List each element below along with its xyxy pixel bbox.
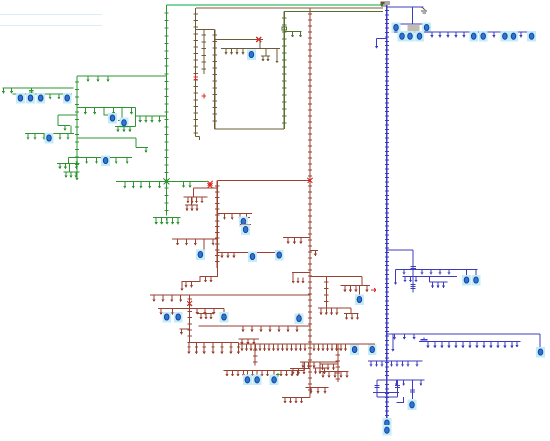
wire: green trunk bottom bus y=217.6 xyxy=(153,217,180,219)
load arrows on y=308.2 xyxy=(321,308,337,312)
wire: top-left lateral y=88 xyxy=(3,87,74,89)
wire: green tie line y=181.5 west part xyxy=(116,181,207,183)
transformer bank dot B4 xyxy=(469,31,478,42)
transformer T19 (blue dot) xyxy=(536,347,545,358)
junction switch at trunk tie crossing xyxy=(164,179,170,185)
cross bars on riser lower xyxy=(411,285,416,289)
wire: dot stems on y=370.7 xyxy=(247,371,274,376)
wire: dot stems cluster1 xyxy=(467,270,477,277)
voltage regulator box VR1 xyxy=(408,26,420,30)
wire: southwest branch y=163.3 xyxy=(57,157,79,163)
load arrows under bus y=76 xyxy=(88,76,108,80)
wire: cluster2 sub-bus y=341.7 xyxy=(419,341,520,343)
wire: H-structure top bus y=380.1 xyxy=(377,379,425,381)
wire: lateral y=360.9 xyxy=(368,360,423,362)
load ticks on feeder bus xyxy=(432,32,521,35)
capacitor C9 (blue dot) on trunk xyxy=(383,418,392,429)
wire: east bus y=308.4 xyxy=(190,307,224,309)
transformer T20 (blue dot) xyxy=(408,400,417,411)
load arrows on lateral y=107.6 xyxy=(85,108,131,113)
load ticks on bus y=269.5 xyxy=(404,270,449,273)
load arrows on y=380.1 xyxy=(396,380,421,383)
recloser bars on riser x=413.2 xyxy=(411,267,416,269)
wire: drop for T16 xyxy=(298,314,300,316)
recloser bars right leg xyxy=(395,385,400,387)
wire: sub-feeder y=39.5 xyxy=(215,39,263,41)
load arrows on y=370.7 xyxy=(227,371,298,374)
wire: bus y=285.7 xyxy=(341,285,371,287)
wire: stub y=56 xyxy=(261,49,270,57)
load arrows on y=360.9 xyxy=(371,361,417,364)
capacitor C5 (blue dot) xyxy=(350,344,359,355)
wire: olive feeder head line y=11.5 xyxy=(284,11,383,13)
wire: lateral y=213.3 east xyxy=(217,212,252,214)
load arrows on branch y=31.6 xyxy=(293,32,301,35)
load arrows on y=213.3 xyxy=(225,213,240,217)
wire: sub-bus y=48.5 xyxy=(221,48,280,50)
load arrows on lateral y=94 xyxy=(50,94,59,97)
load arrow staircase end xyxy=(181,286,183,289)
load arrows on comb y=126.5 xyxy=(118,127,130,130)
capacitor bank C3 (blue dot) xyxy=(36,93,45,104)
load arrows y=205 xyxy=(187,205,197,209)
wire: drop x=361.8 xyxy=(361,276,363,285)
wire: blue feeder head y=7 xyxy=(387,6,424,8)
wire: drop x=392.9 xyxy=(392,334,394,347)
load arrows y=371.7 xyxy=(323,372,347,376)
load arrows on y=285.7 xyxy=(345,286,367,290)
wire: H bottom bar y=396.8 xyxy=(377,396,398,398)
transformer T17 (blue dot) xyxy=(462,275,471,286)
load arrows on sub-bus y=341.7 xyxy=(428,342,512,346)
pole ticks on x=284.2 xyxy=(282,18,286,123)
pole ticks on x=203.8 xyxy=(202,35,206,69)
wire: lateral y=326 from riser to trunk xyxy=(199,325,311,327)
wire: west bus y=308.4 xyxy=(158,307,190,309)
load arrow on y=125.5 stub xyxy=(64,126,66,129)
faint artifact line 1 xyxy=(0,14,102,16)
wire: loop vertical x=195.6 xyxy=(195,8,197,137)
transformer bank dot B3 xyxy=(415,31,424,42)
wire: riser x=413.2 lower xyxy=(412,270,414,293)
load arrows y=277.5 xyxy=(293,278,303,281)
transformer T22 (blue dot) xyxy=(253,375,262,386)
load arrows on y=252.3 xyxy=(222,252,234,255)
recloser bars left leg xyxy=(374,385,379,387)
wire: east corner riser x=304.7 xyxy=(305,362,310,371)
wire: riser x=136 with hook xyxy=(136,138,148,148)
pole ticks x=337.8 xyxy=(336,349,340,379)
transformer T14 (blue dot) xyxy=(174,312,183,323)
wire: riser x=189.6 xyxy=(189,295,191,343)
transformer T6 (blue dot) xyxy=(247,49,256,60)
wire: west lateral y=133.7 xyxy=(25,126,74,134)
transformer T8 (blue dot) xyxy=(241,224,250,235)
pole ticks on x=217.3 xyxy=(215,186,219,261)
wire: red subtrunk x=217.3 xyxy=(216,181,218,269)
wire: sub-bus y=313.5 mid xyxy=(197,313,214,315)
load arrows on lateral y=133.7 xyxy=(28,134,68,138)
load arrows under tie y=181.5 xyxy=(125,182,160,186)
load arrows y=362 xyxy=(303,362,314,366)
wire: green bus y=76 from x=77 to trunk xyxy=(77,75,167,77)
pole ticks on x=195.6 xyxy=(193,14,197,133)
wire: west stub y=364 xyxy=(320,363,338,365)
wire: riser x=412.6 from head xyxy=(412,7,414,24)
fuse F1 (red mark) xyxy=(194,75,199,80)
load arrow y=328.8 xyxy=(181,329,183,332)
transformer T10 (blue dot) xyxy=(248,251,257,262)
transformer T3 (blue dot) xyxy=(120,118,129,129)
load arrows on y=308.4 east xyxy=(197,308,214,312)
wire: west spur y=38.5 xyxy=(377,39,387,44)
switch symbol with 2% label xyxy=(421,7,427,13)
wire: stub x=277 xyxy=(276,49,278,59)
wire: west branch y=115 from x=77 xyxy=(58,115,77,126)
tie switch SW1 open (red X) xyxy=(208,181,213,186)
wire: staircase jog from trunk xyxy=(182,268,217,286)
green tap mark near T23 xyxy=(276,373,280,377)
transformer bank dot B2 xyxy=(406,31,415,42)
transformer T7 (blue dot) xyxy=(239,216,248,227)
dense hatch on band xyxy=(242,344,346,349)
wire: red trunk vertical x=310 xyxy=(309,8,311,397)
fuse F2 (red mark) xyxy=(202,94,207,99)
wire: loop vertical x=284.2 xyxy=(283,12,285,130)
wire: drop to sub-bus y=115 xyxy=(104,108,113,115)
transformer T16 (blue dot) xyxy=(295,313,304,324)
wire: jog cluster y=274 xyxy=(292,273,310,278)
capacitor C6 (blue dot) xyxy=(368,344,377,355)
load arrow x=395.5 xyxy=(395,280,397,283)
wire: comb y=126.5 xyxy=(115,116,136,127)
load arrows y=368 xyxy=(316,368,325,372)
load arrows on y=313.5 right xyxy=(347,314,358,318)
wire: lateral y=137.8 to x=136 xyxy=(77,137,136,139)
wire: stub y=224.5 xyxy=(240,221,251,225)
wire: brown feeder head line y=8 xyxy=(196,7,383,9)
wire: lateral y=252.3 east xyxy=(217,251,276,253)
wire: drop to T15 xyxy=(223,308,225,313)
load arrows on band top xyxy=(242,339,254,342)
transformer T1 tap at x=31.3 xyxy=(29,88,34,94)
load arrows on y=237.5 xyxy=(288,238,301,242)
pole ticks on green trunk xyxy=(164,13,168,211)
transformer T4 (blue dot) xyxy=(45,133,54,144)
wire: drop x=326.3 xyxy=(325,276,327,308)
wire: stub east of trunk y=250.5 xyxy=(310,250,318,252)
load arrow x=392.9 xyxy=(392,347,394,350)
wire: drop to T12 xyxy=(358,286,360,296)
wire: drop x=260 xyxy=(259,40,261,49)
wire: branch y=172 xyxy=(63,163,79,172)
load arrows on y=333.9 near trunk xyxy=(395,334,415,337)
wire: loop bottom y=129 xyxy=(215,128,285,130)
load arrows on bottom bus xyxy=(156,218,178,223)
wire: loop vertical x=214.7 xyxy=(214,30,216,130)
transformer T18 (blue dot) xyxy=(472,275,481,286)
wire: cluster bus y=196.8 xyxy=(184,196,208,198)
pole ticks x=326.3 xyxy=(324,282,328,302)
capacitor bank C1 (blue dot) xyxy=(16,93,25,104)
wire: H mid bar y=392.7 xyxy=(373,392,399,394)
pole ticks on green vertical x=77 xyxy=(75,82,79,172)
wire: comb y=282 xyxy=(430,276,448,282)
wire: extension y=116 to trunk xyxy=(136,108,167,116)
load arrow x=277 xyxy=(276,58,278,61)
load arrows on y=276.4 xyxy=(405,276,416,279)
load arrows on y=387.3 xyxy=(311,387,325,391)
load arrows on lateral y=88 xyxy=(4,88,12,91)
wire: long lateral y=295 west xyxy=(150,294,310,296)
load arrows y=56 xyxy=(263,56,268,59)
wire: cluster1 bus y=269.5 xyxy=(396,269,478,271)
wire: comb y=368 below xyxy=(313,362,327,368)
load arrows y=313.5 mid xyxy=(201,314,211,317)
switch SW3 (red X at 210,185) xyxy=(208,183,213,188)
wire: drop x=204.2 xyxy=(196,239,204,250)
wire: west drop x=395.5 xyxy=(395,270,397,280)
switch SW4 (red X on riser) xyxy=(187,301,192,306)
tie junction mark xyxy=(308,178,313,183)
regulator bars at sub-bus west end xyxy=(421,338,428,342)
capacitor C7 (blue dot) xyxy=(392,22,401,33)
double-stage loads on bus1 xyxy=(187,343,240,352)
wire: bottom tail bus y=387.3 xyxy=(305,386,328,388)
wire: lateral y=157.3 xyxy=(68,156,132,158)
wire: blue trunk x=386.8 xyxy=(386,5,388,421)
recloser R1 at x=284.2 y=28.5 xyxy=(282,27,287,30)
small red arrow marker near blue trunk xyxy=(371,288,376,292)
wire: link y=308.2 to 313.5 bridge xyxy=(339,307,351,309)
wire: drop to sub-bus y=120.5 xyxy=(118,108,127,121)
load arrow on spur xyxy=(376,44,378,47)
wire: lower lateral y=94 xyxy=(13,93,73,95)
wire: mid drop x=255.1 from band xyxy=(254,344,256,366)
wire: lateral y=368.6 short xyxy=(290,368,310,370)
transformer T15 (blue dot) xyxy=(220,312,229,323)
capacitor C8 (blue dot) xyxy=(422,22,431,33)
wire: stub y=328.8 xyxy=(179,328,189,330)
pole ticks on red trunk upper xyxy=(308,14,312,176)
load tick at 515 xyxy=(516,342,518,345)
load arrows y=364 xyxy=(323,364,334,368)
load arrows on extension y=116 xyxy=(140,116,159,120)
transformer bank dot B7 xyxy=(509,31,518,42)
load arrows on sub-bus y=48.5 xyxy=(226,49,243,53)
wire: drop x=412.7 xyxy=(412,380,414,399)
wire: cluster2 top bus y=333.9 xyxy=(387,333,540,335)
wire: branch y=31.6 east xyxy=(284,31,301,33)
switch SW2 open (red X) xyxy=(256,37,261,42)
load arrow y=250.5 xyxy=(315,251,317,254)
wire: green vertical x=77 xyxy=(76,76,78,175)
wire: upper sub-bus y=24 xyxy=(395,23,427,25)
load arrows on y=397.4 xyxy=(285,397,302,401)
wire: right-mid lateral y=237.5 xyxy=(283,237,310,239)
faint artifact line 2 xyxy=(0,25,102,27)
wire: H-left leg x=376.8 xyxy=(376,380,378,397)
transformer T23 (blue dot) xyxy=(270,375,279,386)
load arrows on y=326 xyxy=(243,326,297,330)
pole ticks on blue trunk xyxy=(385,11,389,416)
pole ticks on x=255.1 xyxy=(253,350,257,362)
load arrow end of x=77 vertical xyxy=(76,175,78,178)
pole ticks on riser x=189.6 xyxy=(187,299,191,336)
load arrows on staircase lower xyxy=(186,282,192,285)
wire: band extension to dots xyxy=(346,343,375,345)
wire: sub-bus y=308.2 xyxy=(318,307,339,309)
substation source S1 xyxy=(381,2,390,6)
transformer T9 (blue dot) xyxy=(196,249,205,260)
wire: loop bus y=29.5 xyxy=(196,29,215,31)
transformer T12 (blue dot) xyxy=(355,294,364,305)
capacitor bank C2 (blue dot) xyxy=(26,93,35,104)
wire: cluster1 branch y=250.2 xyxy=(387,250,413,269)
wire: main top feeder bus y=32 xyxy=(394,31,532,33)
load arrows y=368.6 xyxy=(293,369,304,372)
load arrow at green tie east end xyxy=(184,182,191,186)
wire: south branch x=337.8 xyxy=(337,344,339,382)
transformer T5 (blue dot) xyxy=(101,155,110,166)
capacitor bank C4 (blue dot) xyxy=(63,93,72,104)
wire: H-right leg x=397.4 xyxy=(396,380,398,397)
load arrows on y=308.4 west xyxy=(161,308,172,312)
capacitor C10 (blue dot) trunk end xyxy=(383,425,392,436)
wire: east branch y=276.3 xyxy=(310,275,362,277)
wire: bottom bus1 y=342.7 xyxy=(188,342,239,344)
load arrows y=163.3 xyxy=(60,163,77,166)
transformer T21 (blue dot) xyxy=(243,375,252,386)
load arrows on staircase xyxy=(206,277,212,280)
wire: green trunk vertical x=166.5 xyxy=(166,5,168,215)
wire: hook at bottom of x=195.6 xyxy=(196,137,200,141)
transformer T11 (blue dot) xyxy=(275,250,284,261)
wire: bottom lateral y=397.4 xyxy=(282,396,310,398)
wire: cluster link y=188 xyxy=(193,188,217,197)
transformer bank dot B1 xyxy=(398,31,407,42)
wire: link and sub-bus y=313.5 right xyxy=(344,308,359,313)
load arrows y=282 xyxy=(433,282,444,286)
wire: drop to dot pair xyxy=(239,213,250,217)
transformer T13 (blue dot) xyxy=(162,312,171,323)
wire: red tie y=180.5 xyxy=(217,180,310,182)
wire: dense band y=344 xyxy=(239,343,347,345)
wire: trunk stub below bus xyxy=(166,218,168,221)
load arrows on lateral y=157.3 xyxy=(77,157,127,161)
wire: green feeder head line y=5 xyxy=(167,4,384,6)
wire: lateral y=371.7 xyxy=(320,371,348,373)
wire: lateral y=370.7 xyxy=(223,370,304,372)
wire: hook at (398,402) xyxy=(397,397,404,403)
transformer T2 (blue dot) xyxy=(108,113,117,124)
load arrows on y=196.8 xyxy=(188,197,202,201)
wire: east end drop x=540 xyxy=(539,334,541,348)
pole ticks on red trunk lower xyxy=(308,186,312,390)
load arrows on y=295 xyxy=(154,295,181,299)
load arrows y=172 xyxy=(66,172,76,175)
load arrows on y=238.8 xyxy=(178,239,214,243)
wire: cluster stub x=191.5 xyxy=(185,197,198,205)
wire: cluster1 sub-bus y=276.4 xyxy=(402,275,457,277)
wire: dot stems on band extension xyxy=(355,344,373,346)
pole ticks on x=214.7 xyxy=(213,35,217,121)
wire: lateral y=238.8 west xyxy=(172,238,217,240)
wire: band top y=339 xyxy=(239,338,260,340)
wire: lateral y=362 west of trunk xyxy=(300,361,337,363)
wire: lateral y=107.6 east of x=77 xyxy=(77,107,136,109)
transformer bank dot B5 xyxy=(479,31,488,42)
wire: stub vertical x=203.8 xyxy=(203,30,205,75)
transformer bank dot B8 at feeder end xyxy=(527,31,536,42)
recloser bars on x=412.7 xyxy=(410,390,415,392)
transformer bank dot B6 xyxy=(501,31,510,42)
load arrow on hook xyxy=(145,148,147,151)
